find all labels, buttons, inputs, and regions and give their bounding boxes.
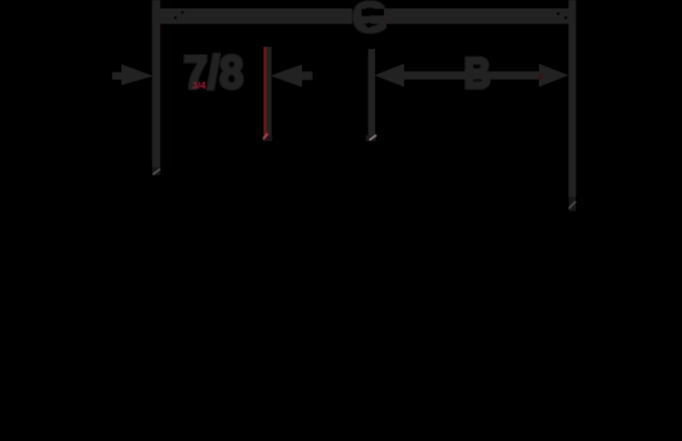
foot at bottom of left extension line — [152, 167, 160, 175]
arrowhead left of dimension C (contained in band) — [160, 9, 191, 24]
red annotation under label — [193, 81, 207, 92]
open notch of label G — [362, 9, 385, 16]
svg-text:B: B — [464, 48, 491, 98]
tick at bottom of left extension line — [153, 169, 160, 175]
label B — [464, 48, 491, 98]
middle extension line (dark) — [266, 47, 271, 137]
right outside arrowhead pointing left at middle line — [271, 65, 302, 88]
label 7/8 fraction — [184, 48, 244, 98]
dimension line C right segment — [384, 9, 570, 24]
left outside arrowhead pointing right at extension line — [122, 64, 154, 85]
counter dot of label G — [366, 23, 371, 28]
foot blob at bottom of mid-right extension line — [366, 136, 376, 142]
dimension line B — [401, 72, 540, 80]
extension line mid-right — [368, 49, 375, 136]
tick at bottom of right extension line — [569, 202, 576, 209]
notch hole left arrow — [181, 11, 184, 14]
left outside arrow tail (wire stub) — [112, 72, 126, 79]
arrowhead right of dimension C (contained in band) — [538, 9, 569, 24]
arrowhead left of dimension B — [374, 64, 404, 87]
bar region of label G — [361, 16, 384, 24]
foot blob at bottom of middle extension line — [263, 136, 272, 141]
dimension line C left segment — [158, 9, 352, 24]
right outside arrow tail (wire stub) — [300, 72, 312, 80]
red tinge in right arrow of B — [539, 74, 543, 80]
fading tail of right extension line — [569, 197, 576, 211]
arrowhead right of dimension B — [539, 64, 569, 87]
extension line right — [569, 0, 576, 197]
tick at bottom of middle extension line — [264, 134, 268, 140]
red edge of middle extension line — [264, 47, 266, 137]
label G (top dimension letter) — [352, 0, 388, 42]
svg-text:3/4: 3/4 — [193, 81, 207, 92]
extension line left (A-side) — [152, 0, 160, 168]
notch hole right arrow — [557, 12, 560, 15]
tick at bottom of mid-right extension line — [370, 135, 377, 140]
